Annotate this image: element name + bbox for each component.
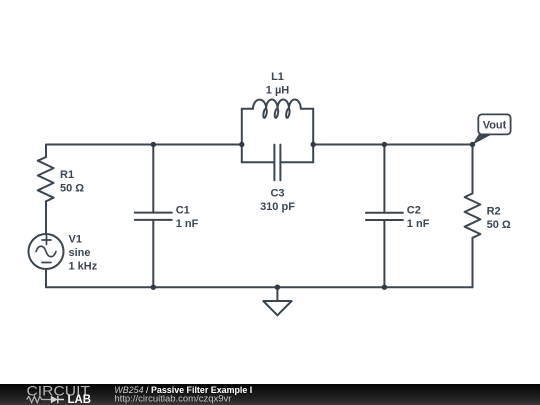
svg-text:C2: C2 [407, 205, 421, 217]
svg-text:50 Ω: 50 Ω [60, 183, 84, 195]
svg-text:Vout: Vout [483, 119, 507, 131]
svg-text:C3: C3 [270, 187, 284, 199]
svg-text:1 nF: 1 nF [176, 218, 199, 230]
svg-text:1 kHz: 1 kHz [69, 261, 98, 273]
svg-text:R1: R1 [60, 169, 74, 181]
svg-text:L1: L1 [271, 71, 284, 83]
svg-text:1 µH: 1 µH [266, 85, 290, 97]
svg-text:R2: R2 [487, 206, 501, 218]
svg-text:50 Ω: 50 Ω [487, 219, 511, 231]
svg-text:http://circuitlab.com/czqx9vr: http://circuitlab.com/czqx9vr [114, 393, 231, 404]
svg-text:LAB: LAB [68, 393, 92, 405]
svg-text:sine: sine [69, 247, 91, 259]
svg-text:310 pF: 310 pF [260, 201, 295, 213]
svg-text:C1: C1 [176, 205, 190, 217]
svg-text:1 nF: 1 nF [407, 218, 430, 230]
svg-text:V1: V1 [69, 233, 82, 245]
